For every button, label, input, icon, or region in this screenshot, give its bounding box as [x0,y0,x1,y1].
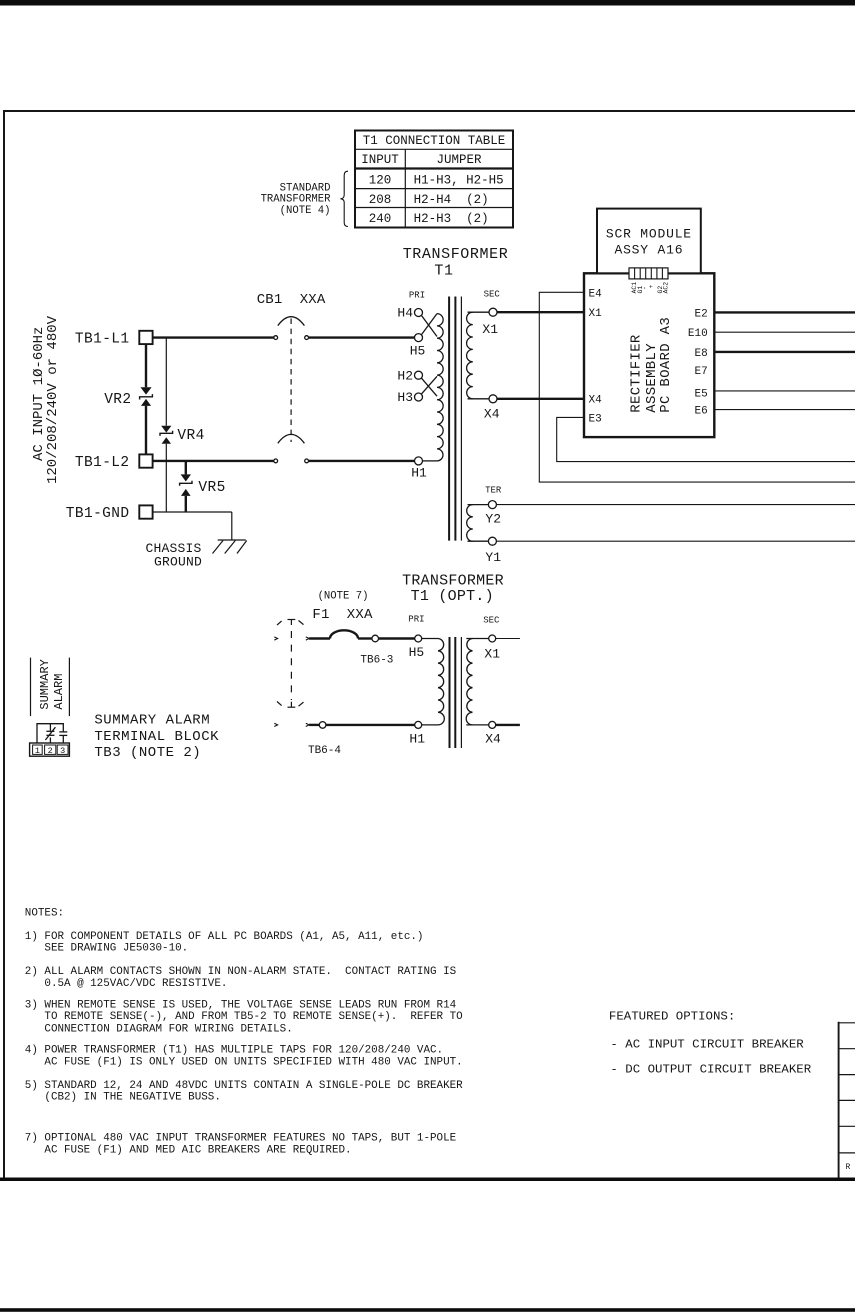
svg-text:PC BOARD A3: PC BOARD A3 [658,317,674,413]
svg-text:TRANSFORMER: TRANSFORMER [261,194,332,206]
svg-text:H3: H3 [397,390,413,405]
svg-text:3: 3 [60,746,65,756]
svg-text:3) WHEN REMOTE SENSE IS USED,: 3) WHEN REMOTE SENSE IS USED, THE VOLTAG… [25,999,456,1011]
svg-text:0.5A @ 125VAC/VDC RESISTIVE.: 0.5A @ 125VAC/VDC RESISTIVE. [25,978,228,990]
svg-text:4) POWER TRANSFORMER (T1) HAS: 4) POWER TRANSFORMER (T1) HAS MULTIPLE T… [25,1044,443,1056]
svg-text:SCR MODULE: SCR MODULE [606,226,692,241]
svg-text:X1: X1 [484,646,500,661]
svg-text:GROUND: GROUND [154,554,202,569]
svg-text:E7: E7 [694,366,707,378]
svg-text:208: 208 [369,193,392,207]
svg-text:2) ALL ALARM CONTACTS SHOWN IN: 2) ALL ALARM CONTACTS SHOWN IN NON-ALARM… [25,966,456,978]
svg-text:H2-H4 (2): H2-H4 (2) [414,193,489,207]
svg-text:H2: H2 [397,368,413,383]
svg-text:H2-H3 (2): H2-H3 (2) [414,212,489,226]
svg-text:E10: E10 [688,328,708,340]
svg-text:120/208/240V or 480V: 120/208/240V or 480V [45,315,61,484]
svg-text:PRI: PRI [409,290,425,300]
svg-text:E2: E2 [694,308,707,320]
svg-text:H1: H1 [409,731,425,746]
svg-text:TB3 (NOTE 2): TB3 (NOTE 2) [94,745,201,761]
svg-text:SUMMARY: SUMMARY [38,659,52,709]
svg-text:- DC OUTPUT CIRCUIT BREAKER: - DC OUTPUT CIRCUIT BREAKER [610,1063,811,1077]
svg-text:T1 CONNECTION TABLE: T1 CONNECTION TABLE [363,134,506,148]
svg-text:PRI: PRI [408,615,424,625]
svg-text:VR4: VR4 [177,428,204,444]
svg-text:1: 1 [35,746,40,756]
svg-text:SUMMARY ALARM: SUMMARY ALARM [94,713,210,729]
svg-text:TER: TER [485,486,502,496]
svg-text:120: 120 [369,174,392,188]
svg-text:ASSY A16: ASSY A16 [614,242,683,257]
svg-text:SEC: SEC [484,289,501,299]
svg-text:VR5: VR5 [198,480,225,496]
svg-text:E3: E3 [589,413,602,425]
svg-text:+: + [648,285,655,289]
svg-text:VR2: VR2 [104,392,131,408]
svg-text:5) STANDARD 12, 24 AND 48VDC U: 5) STANDARD 12, 24 AND 48VDC UNITS CONTA… [25,1080,463,1092]
svg-text:2: 2 [48,746,53,756]
svg-text:TB6-4: TB6-4 [308,745,341,757]
svg-text:(CB2) IN THE NEGATIVE BUSS.: (CB2) IN THE NEGATIVE BUSS. [25,1092,221,1104]
svg-text:E6: E6 [694,406,707,418]
svg-text:FEATURED OPTIONS:: FEATURED OPTIONS: [609,1010,735,1024]
svg-text:F1 XXA: F1 XXA [312,607,373,623]
svg-text:TB6-3: TB6-3 [360,655,393,667]
svg-text:1) FOR COMPONENT DETAILS OF AL: 1) FOR COMPONENT DETAILS OF ALL PC BOARD… [25,931,424,943]
svg-text:TO REMOTE SENSE(-), AND FROM T: TO REMOTE SENSE(-), AND FROM TB5-2 TO RE… [25,1011,463,1023]
svg-text:TB1-GND: TB1-GND [66,506,130,522]
svg-text:STANDARD: STANDARD [280,182,331,194]
svg-text:X1: X1 [589,308,603,320]
svg-text:H1-H3, H2-H5: H1-H3, H2-H5 [414,174,504,188]
svg-text:ALARM: ALARM [52,674,66,710]
svg-text:X4: X4 [589,395,603,407]
svg-text:T1 (OPT.): T1 (OPT.) [411,588,494,605]
svg-text:CB1 XXA: CB1 XXA [257,292,326,308]
svg-text:AC2: AC2 [663,282,670,294]
svg-text:X4: X4 [485,731,501,746]
svg-text:H5: H5 [410,344,426,359]
svg-text:R: R [846,1163,851,1172]
svg-text:INPUT: INPUT [361,153,399,167]
svg-text:E4: E4 [589,288,603,300]
svg-text:TRANSFORMER: TRANSFORMER [403,246,509,263]
svg-text:X1: X1 [482,322,498,337]
svg-text:JUMPER: JUMPER [436,153,482,167]
svg-text:Y1: Y1 [485,550,501,565]
svg-text:E8: E8 [694,348,707,360]
svg-text:SEE DRAWING JE5030-10.: SEE DRAWING JE5030-10. [25,943,188,955]
svg-text:X4: X4 [484,407,500,422]
svg-text:H5: H5 [409,645,425,660]
svg-text:RECTIFIER: RECTIFIER [628,334,644,413]
svg-text:AC FUSE (F1) IS ONLY USED ON U: AC FUSE (F1) IS ONLY USED ON UNITS SPECI… [25,1056,463,1068]
svg-text:(NOTE 4): (NOTE 4) [280,205,331,217]
svg-text:T1: T1 [434,262,453,279]
svg-text:Y2: Y2 [485,512,501,527]
svg-text:(NOTE 7): (NOTE 7) [318,591,369,603]
svg-text:NOTES:: NOTES: [25,907,64,919]
svg-text:CONNECTION DIAGRAM FOR WIRING: CONNECTION DIAGRAM FOR WIRING DETAILS. [25,1023,293,1035]
svg-text:TB1-L1: TB1-L1 [75,331,130,347]
svg-text:H4: H4 [397,306,413,321]
svg-text:TERMINAL BLOCK: TERMINAL BLOCK [94,729,219,745]
svg-text:AC FUSE (F1) AND MED AIC BREAK: AC FUSE (F1) AND MED AIC BREAKERS ARE RE… [25,1144,352,1156]
svg-text:H1: H1 [411,466,427,481]
svg-text:7) OPTIONAL 480 VAC INPUT TRAN: 7) OPTIONAL 480 VAC INPUT TRANSFORMER FE… [25,1133,456,1145]
svg-text:TB1-L2: TB1-L2 [75,455,130,471]
svg-text:SEC: SEC [483,616,500,626]
svg-text:E5: E5 [694,388,707,400]
svg-text:- AC INPUT CIRCUIT BREAKER: - AC INPUT CIRCUIT BREAKER [610,1037,804,1051]
svg-text:240: 240 [369,212,392,226]
